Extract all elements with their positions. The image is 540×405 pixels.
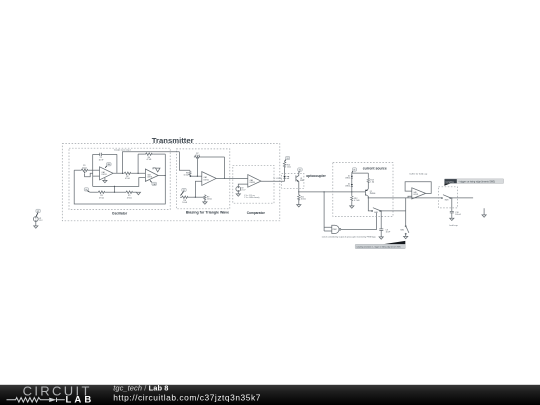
svg-text:hold cap: hold cap — [449, 225, 458, 227]
ground R12 — [350, 206, 354, 208]
svg-text:current source: current source — [363, 167, 387, 171]
gate PWM nand — [332, 225, 341, 233]
wire collector to SW1 — [368, 198, 371, 211]
wire SW2 to ground — [405, 234, 407, 236]
wire minus line OA3 — [93, 178, 146, 187]
resistor R8 — [180, 196, 195, 204]
optocoupler dashed box — [282, 173, 304, 188]
resistor R3a bottom — [90, 191, 115, 199]
svg-text:10 kΩ: 10 kΩ — [207, 199, 212, 201]
op-amp OA3 — [145, 169, 158, 181]
svg-text:LM741: LM741 — [204, 179, 209, 181]
resistor R7 top — [194, 153, 225, 158]
FOOTER — [0, 383, 540, 405]
capacitor C9 — [379, 229, 391, 237]
wire R7 vertical — [196, 157, 198, 176]
op-amp OA4 comparator — [248, 175, 261, 188]
junction OA2 out — [224, 178, 225, 179]
svg-text:4.7 kΩ: 4.7 kΩ — [354, 200, 360, 202]
svg-text:V1: V1 — [299, 170, 301, 172]
svg-text:PWM: PWM — [333, 229, 338, 231]
diode D1 — [345, 173, 353, 184]
svg-text:10 nF: 10 nF — [99, 159, 105, 161]
junction divider biasing — [195, 197, 196, 198]
svg-text:LM741: LM741 — [147, 176, 152, 178]
tag VCC current source — [352, 168, 357, 173]
svg-text:Q1: Q1 — [300, 178, 302, 180]
wire oscillator loop right — [74, 154, 165, 204]
svg-text:47 kΩ: 47 kΩ — [127, 197, 132, 199]
wire opto emitter down — [298, 188, 300, 192]
svg-text:LM741: LM741 — [102, 174, 107, 176]
source V2 comparator — [236, 187, 246, 192]
svg-text:SW2: SW2 — [400, 230, 404, 232]
comparator dashed box — [233, 165, 274, 203]
svg-text:Comparator: Comparator — [247, 211, 266, 215]
svg-text:V1: V1 — [85, 189, 87, 191]
svg-text:10 kΩ: 10 kΩ — [182, 202, 187, 204]
annotation comparator sweep — [244, 195, 259, 199]
wire OA5 minus stub — [408, 196, 412, 198]
wire OA4 minus — [238, 184, 248, 186]
wire output rail — [368, 197, 473, 199]
junction OA3 out — [165, 175, 166, 176]
svg-text:- trigger on rising edge (inve: - trigger on rising edge (inverts SW3) — [458, 180, 495, 183]
resistor R9 biasing — [195, 195, 212, 201]
wire gate output — [341, 213, 377, 230]
junction gate branch — [323, 191, 324, 192]
svg-text:optocoupler: optocoupler — [306, 174, 326, 178]
node flag blob near R1 — [84, 172, 86, 174]
svg-text:1N914: 1N914 — [345, 177, 350, 179]
wire R4 vertical — [137, 154, 139, 173]
wire OA4 output — [261, 180, 285, 182]
resistor R5a bottom — [115, 191, 137, 199]
biasing dashed box — [176, 149, 229, 209]
current source dashed box — [333, 163, 393, 217]
svg-text:2N3906: 2N3906 — [370, 193, 376, 195]
wire OA3 output — [158, 175, 165, 177]
svg-text:tgc_tech / Lab 8: tgc_tech / Lab 8 — [113, 384, 168, 393]
svg-text:Biasing for Triangle Wave: Biasing for Triangle Wave — [186, 211, 229, 215]
tag V1 photo collector — [298, 168, 303, 173]
junction R6 — [190, 175, 192, 177]
logo diode — [49, 398, 56, 402]
ground C10 — [450, 218, 454, 220]
svg-text:47 kΩ: 47 kΩ — [99, 197, 104, 199]
ground C9 — [379, 237, 383, 239]
footer bar — [0, 385, 540, 405]
switch SW1 — [372, 208, 381, 215]
logo squiggle wire — [7, 398, 50, 403]
svg-text:Oscillator: Oscillator — [112, 212, 128, 216]
resistor R1 — [74, 165, 99, 171]
svg-text:LAB: LAB — [66, 394, 95, 405]
oscillator dashed box — [69, 148, 170, 209]
wire plus input OA2 — [190, 175, 202, 177]
svg-text:5 V = 4 MHz linearly: 5 V = 4 MHz linearly — [244, 196, 259, 199]
wire triangle output up — [123, 152, 180, 174]
svg-text:1N914: 1N914 — [345, 186, 350, 188]
wire OA5 feedback loop — [405, 182, 431, 194]
resistor R4 feedback — [138, 153, 165, 161]
wire OA1 output row — [113, 172, 145, 174]
svg-text:triangle wave output: triangle wave output — [114, 149, 131, 152]
tag V1 opto supply — [285, 156, 290, 161]
tag OA3 — [150, 180, 157, 185]
svg-text:SW1: SW1 — [374, 212, 378, 214]
svg-text:buffer for hold cap: buffer for hold cap — [410, 172, 428, 175]
resistor R2 mid — [123, 172, 132, 180]
wire divider tick — [114, 186, 116, 192]
wire OA2 minus — [195, 181, 201, 197]
annotation bar top right — [444, 179, 503, 186]
ground R11 — [297, 205, 301, 207]
svg-text:f = 1.15/RC: f = 1.15/RC — [273, 178, 282, 180]
wire biasing input — [179, 152, 190, 171]
svg-text:10 kΩ: 10 kΩ — [301, 199, 306, 201]
transmitter dashed box — [62, 144, 279, 221]
diode D2 — [345, 184, 353, 192]
svg-text:http://circuitlab.com/c37jztq3: http://circuitlab.com/c37jztq3n35k7 — [113, 393, 261, 403]
op-amp OA1 — [100, 167, 114, 180]
svg-text:1 kΩ: 1 kΩ — [370, 182, 374, 184]
svg-text:V1: V1 — [183, 190, 185, 192]
svg-text:Q2: Q2 — [370, 191, 372, 193]
ground SW2 — [404, 236, 408, 238]
ground flag OA3 — [153, 168, 160, 172]
wire feedback left vertical — [92, 154, 94, 186]
svg-text:1 kΩ: 1 kΩ — [287, 166, 291, 168]
svg-text:47 kΩ: 47 kΩ — [125, 178, 130, 180]
resistor R6 — [184, 171, 192, 177]
wire OA2 output to comparator — [216, 177, 248, 179]
svg-text:V3: V3 — [37, 211, 39, 213]
svg-text:V1: V1 — [353, 170, 355, 172]
wire jog to OA1 plus input — [85, 173, 100, 177]
capacitor C1 — [93, 153, 117, 162]
tag V flag oscillator — [84, 188, 89, 192]
svg-text:V1: V1 — [287, 158, 289, 160]
tag OA1 — [105, 163, 111, 168]
junction OA1 out — [122, 173, 123, 174]
ground V3 — [34, 221, 38, 228]
resistor R11 opto pulldown — [298, 192, 307, 205]
svg-text:D2: D2 — [348, 184, 350, 186]
tag V flag biasing — [181, 188, 187, 195]
junction collector — [368, 197, 369, 198]
junction R4 — [137, 173, 138, 174]
junction hold cap — [451, 197, 452, 198]
op-amp OA2 — [202, 172, 216, 186]
svg-text:LM741: LM741 — [413, 194, 418, 196]
LED opto — [283, 176, 289, 181]
junction diode base — [351, 191, 352, 192]
wire SW1 to branches — [381, 211, 406, 229]
wire SW2 branch — [405, 198, 407, 226]
svg-text:10 kΩ: 10 kΩ — [184, 175, 189, 177]
resistor R13 emitter — [367, 173, 375, 189]
switch SW2 — [400, 226, 409, 235]
junction tick bottom — [114, 192, 115, 193]
phototransistor Q1 — [296, 173, 304, 188]
svg-text:47 kΩ: 47 kΩ — [147, 159, 152, 161]
svg-text:10 kΩ: 10 kΩ — [82, 167, 87, 169]
wire feedback right vertical — [116, 154, 118, 173]
svg-text:D1: D1 — [348, 175, 350, 177]
wire gate branch — [324, 192, 332, 231]
junction opto out — [298, 191, 299, 192]
svg-text:4N35: 4N35 — [300, 180, 304, 182]
wire base rail — [299, 191, 366, 193]
source V3 left — [33, 209, 43, 222]
svg-text:LM339: LM339 — [250, 182, 255, 184]
ground floating right — [482, 208, 486, 217]
junction R7 — [197, 176, 198, 177]
svg-text:V3: V3 — [39, 218, 41, 220]
ground oscillator row — [136, 192, 140, 195]
op-amp OA5 buffer — [412, 188, 426, 199]
annotation bar bottom — [355, 241, 405, 249]
svg-text:4.7 kΩ: 4.7 kΩ — [195, 155, 201, 157]
svg-text:SW3: SW3 — [445, 200, 449, 202]
resistor R12 — [351, 192, 360, 206]
svg-text:switch controlled by output of: switch controlled by output of optocoupl… — [322, 235, 376, 238]
sample switch dashed box — [439, 187, 458, 208]
svg-text:sampling: sampling — [445, 181, 454, 183]
wire OA2 feedback — [224, 157, 226, 178]
capacitor C10 hold — [450, 198, 462, 218]
ground under OA1 — [103, 178, 107, 183]
svg-text:100 nF: 100 nF — [455, 214, 461, 216]
transistor Q2 pnp — [365, 189, 375, 198]
svg-text:sampling annotation 1 - trigge: sampling annotation 1 - trigger on falli… — [356, 245, 400, 248]
ground R9 — [203, 201, 207, 205]
wire supply rail — [352, 172, 369, 174]
switch SW3 — [441, 195, 451, 202]
junction tick top — [114, 186, 115, 187]
junction SW1 out — [381, 210, 382, 211]
ground V2 — [236, 191, 240, 196]
resistor R10 opto — [283, 161, 291, 176]
